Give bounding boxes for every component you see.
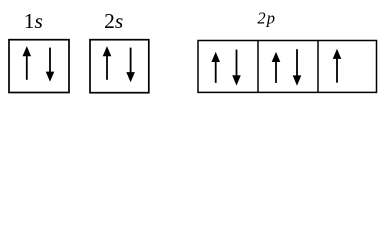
up arrow in 2p cell 1: [211, 52, 220, 83]
svg-text:2p: 2p: [257, 8, 276, 27]
down arrow in 1s: [46, 48, 55, 82]
label 2p: [257, 8, 276, 27]
up arrow in 2s: [103, 46, 112, 80]
2p box group (three cells): [198, 41, 377, 93]
up arrow in 2p cell 3: [333, 49, 342, 83]
label 1s: [24, 9, 43, 33]
up arrow in 2p cell 2: [272, 52, 281, 83]
down arrow in 2p cell 2: [293, 49, 302, 86]
svg-text:1s: 1s: [24, 9, 43, 33]
label 2s: [104, 9, 123, 33]
up arrow in 1s: [23, 46, 32, 80]
down arrow in 2p cell 1: [232, 50, 241, 86]
down arrow in 2s: [126, 48, 135, 83]
svg-text:2s: 2s: [104, 9, 123, 33]
box 1s: [9, 40, 69, 93]
box 2s: [90, 40, 149, 93]
